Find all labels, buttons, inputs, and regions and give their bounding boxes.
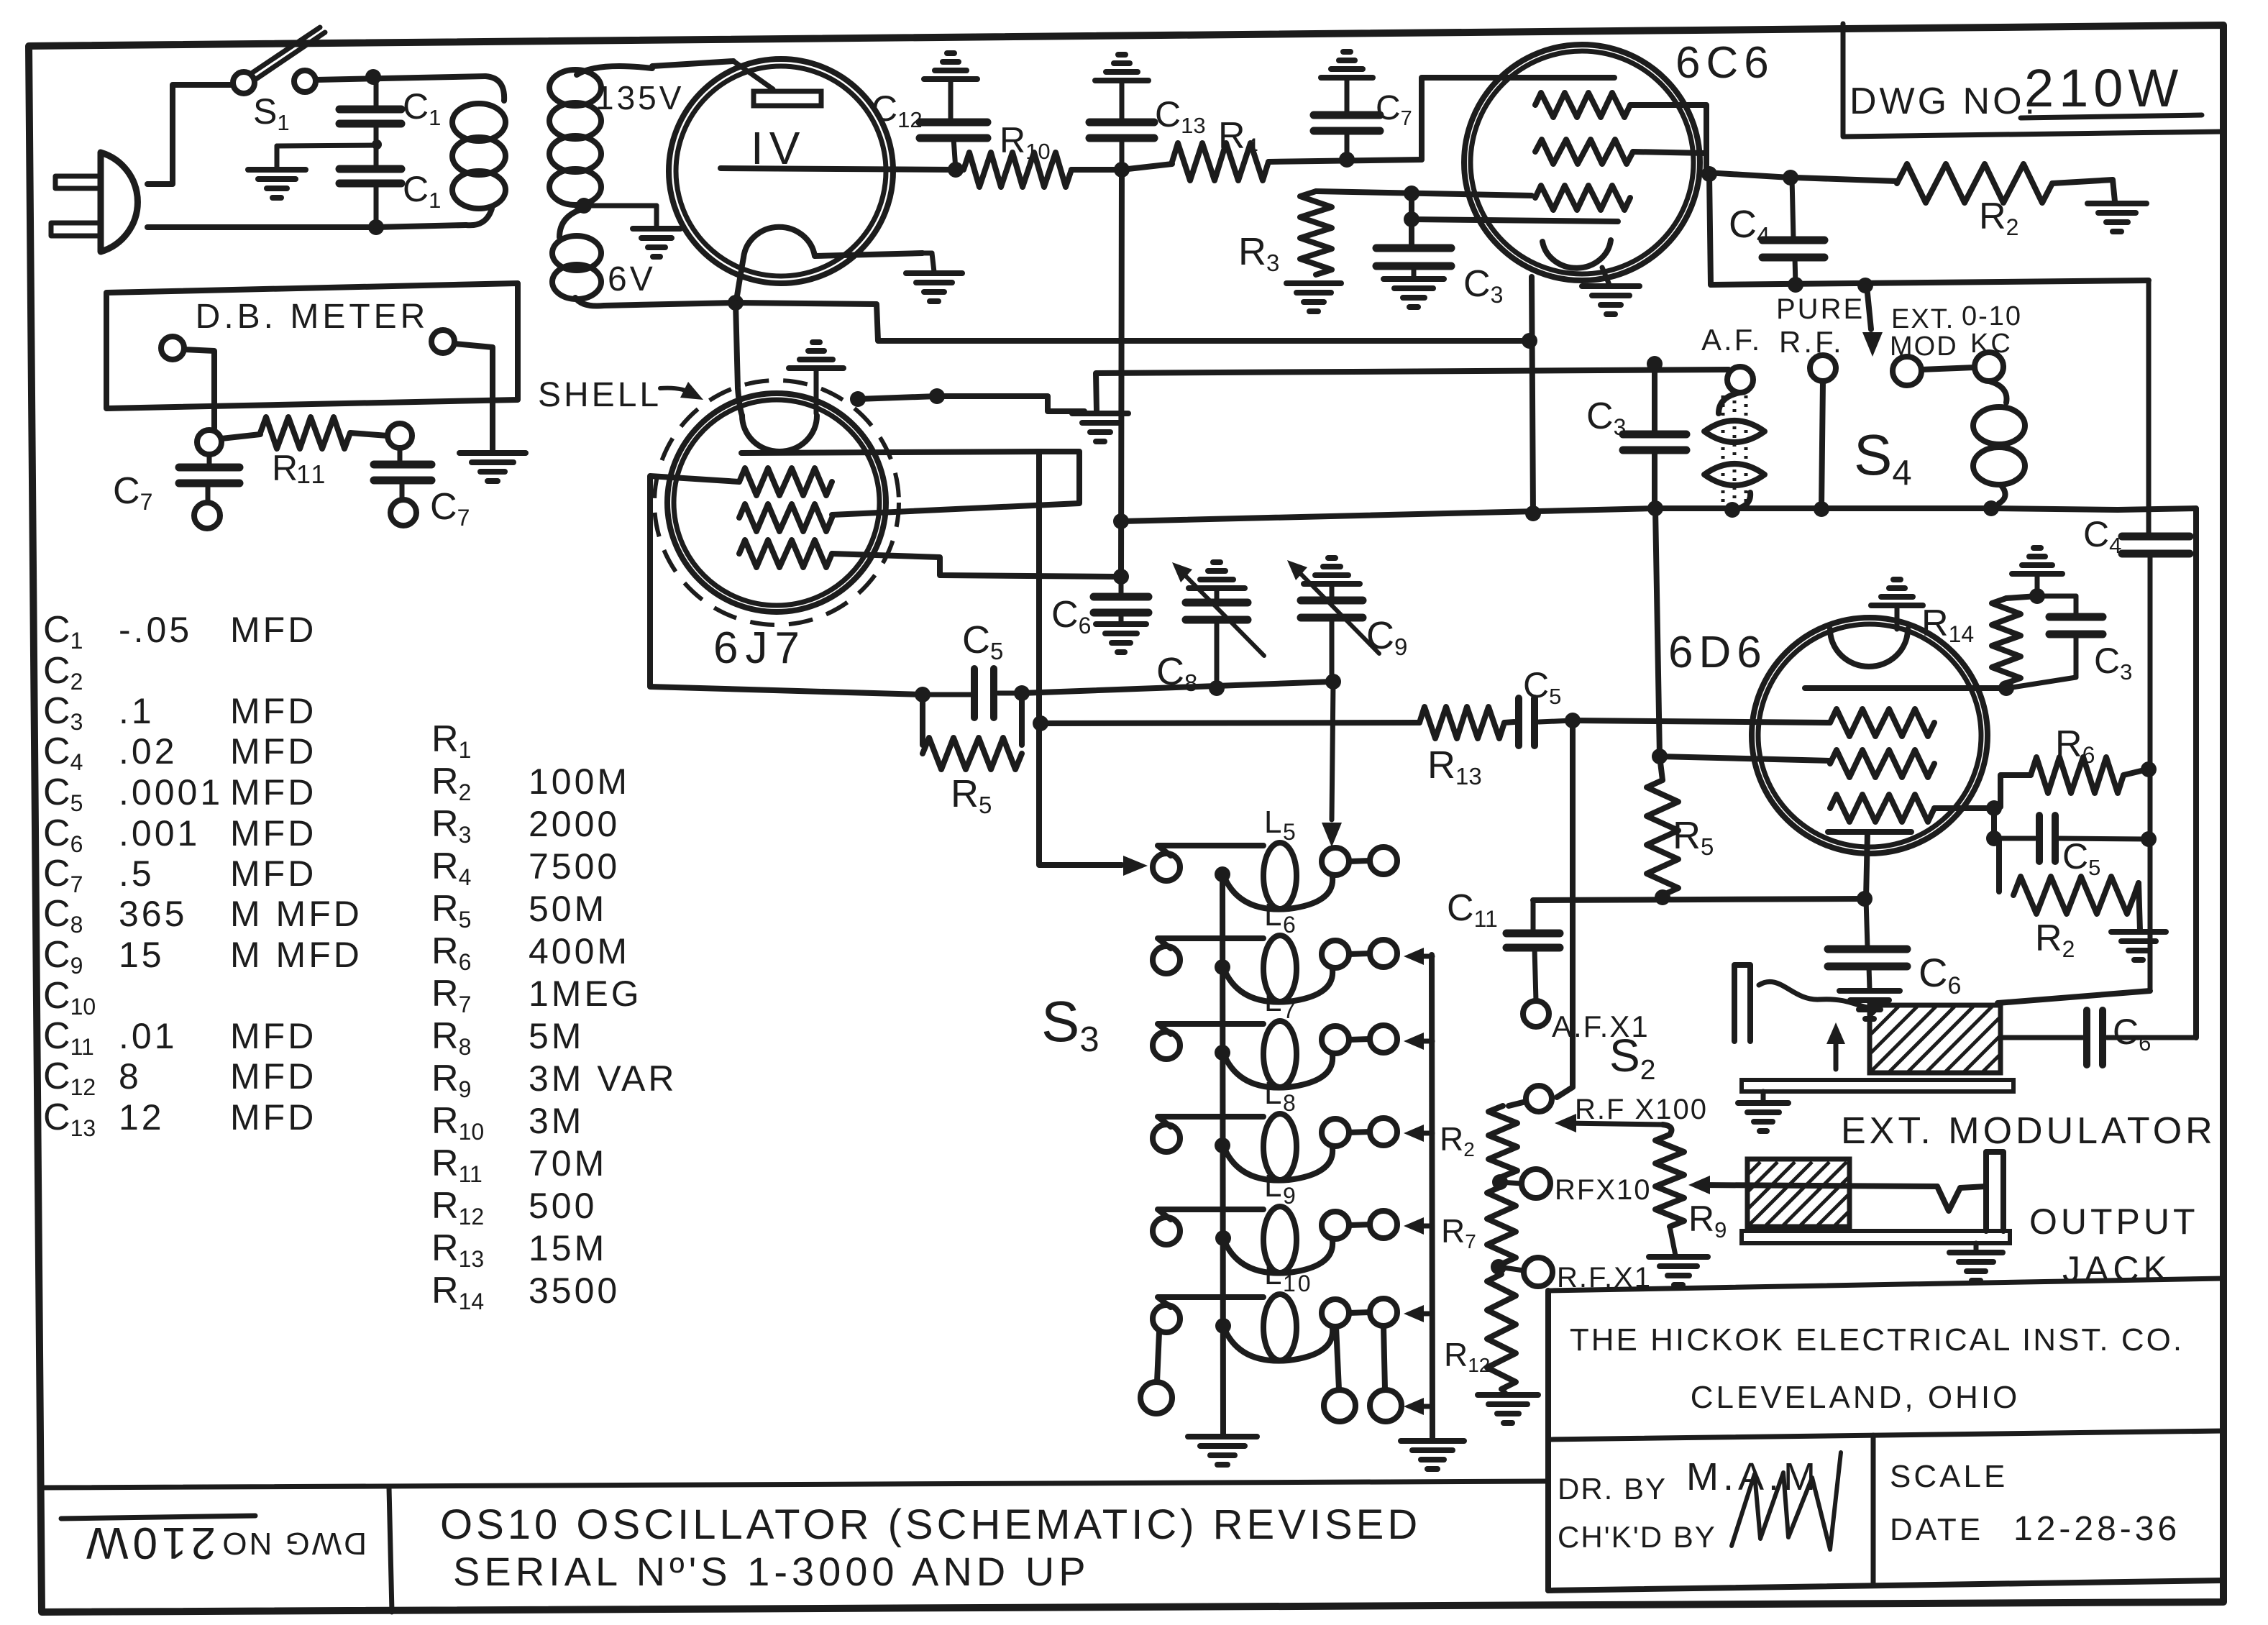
svg-text:L: L: [1264, 897, 1284, 933]
tube 1V grid line: [721, 168, 956, 170]
ground below R9: [1649, 1227, 1708, 1285]
wire 6D6 cathode row: [1533, 899, 1865, 900]
label EXT MOD: [1890, 304, 1958, 362]
label R5 grid: [951, 772, 992, 818]
junction shell 2: [929, 388, 945, 404]
ground tap of C1 pair: [248, 145, 377, 198]
svg-text:MFD: MFD: [230, 1016, 316, 1056]
junction C12: [948, 162, 964, 178]
coil S4 KC: [1973, 381, 2025, 508]
resistor R7 att: [1487, 1186, 1516, 1264]
svg-text:M MFD: M MFD: [230, 935, 362, 975]
svg-text:-.05: -.05: [119, 610, 192, 650]
label 6C6: [1675, 38, 1775, 88]
label C4: [1729, 203, 1770, 249]
svg-text:EXT. MODULATOR: EXT. MODULATOR: [1841, 1110, 2216, 1152]
svg-text:EXT.: EXT.: [1891, 304, 1954, 334]
svg-text:210W: 210W: [2024, 58, 2183, 118]
label C7 left: [113, 470, 152, 515]
wire PURE RF drop: [1821, 381, 1823, 509]
tube 6D6 grid 1: [1830, 709, 1934, 736]
chkd-by: [1558, 1520, 1716, 1554]
wire S1 to transformer: [316, 76, 485, 80]
junction RF x1: [1491, 1259, 1506, 1275]
label R14: [1921, 603, 1974, 647]
label EXT MODULATOR: [1841, 1110, 2216, 1152]
wire 6C6 grid2 stub: [1633, 152, 1705, 153]
label 6J7: [713, 623, 807, 673]
label S3: [1041, 989, 1099, 1059]
ground below R3: [1286, 283, 1341, 311]
label D.B. METER: [196, 298, 429, 336]
junction secondary CT: [576, 198, 592, 214]
drawing number M012 (rotated): [61, 1516, 367, 1567]
ground above C13: [1095, 55, 1148, 81]
wire 6C6 grid1 to C4: [1630, 105, 1791, 178]
svg-text:CLEVELAND, OHIO: CLEVELAND, OHIO: [1691, 1380, 2021, 1415]
svg-text:DWG NO: DWG NO: [220, 1526, 367, 1561]
capacitor C6 cathode: [1828, 899, 1907, 989]
junction C1 mid: [372, 124, 382, 166]
svg-text:500: 500: [529, 1186, 597, 1226]
label R2 att: [1440, 1120, 1475, 1161]
capacitor C4 right: [2122, 280, 2190, 991]
capacitor C5 fb: [1994, 815, 2147, 861]
svg-text:0-10: 0-10: [1962, 301, 2022, 331]
svg-text:9: 9: [1283, 1183, 1298, 1209]
resistor R9: [1655, 1135, 1684, 1227]
terminal RF X10: [1500, 1169, 1550, 1198]
svg-text:D.B. METER: D.B. METER: [196, 298, 429, 336]
arrow range L6: [1404, 948, 1432, 965]
junction L6 rotor: [1215, 959, 1230, 975]
label C4 right: [2083, 514, 2121, 558]
label PURE RF: [1776, 293, 1865, 359]
svg-text:.5: .5: [119, 853, 155, 894]
resistor R12 att: [1487, 1274, 1516, 1389]
resistor R2 fb: [1999, 838, 2140, 930]
svg-text:MFD: MFD: [230, 610, 316, 650]
ground 6J7 shell top: [789, 342, 843, 368]
ground 6D6 top: [1871, 580, 1923, 629]
coil L5: [1153, 805, 1397, 910]
svg-text:.1: .1: [119, 691, 155, 731]
label 6D6: [1668, 628, 1768, 677]
svg-text:L: L: [1264, 805, 1284, 840]
svg-text:MFD: MFD: [230, 853, 316, 894]
junction R6 right: [2141, 761, 2157, 777]
svg-text:SERIAL Nº'S 1-3000 AND UP: SERIAL Nº'S 1-3000 AND UP: [453, 1549, 1090, 1594]
label R4: [1218, 115, 1258, 160]
terminal L10 aux tap2: [1370, 1326, 1402, 1422]
tube 6J7 plate line: [741, 452, 1039, 453]
svg-text:MFD: MFD: [230, 731, 316, 772]
title block box: [1548, 1278, 2223, 1590]
capacitor C3 plate: [2008, 596, 2103, 688]
wire EXT MOD to KC: [1921, 367, 1975, 370]
capacitor C9: [1293, 566, 1379, 682]
label C11: [1447, 887, 1498, 932]
label AF X1: [1552, 1010, 1650, 1043]
wire grid3 to R6: [1994, 775, 2031, 808]
tube 6C6 cathode dome: [1542, 240, 1611, 268]
ground R2 top: [2088, 203, 2146, 232]
ground below C6: [1096, 624, 1146, 652]
tube 6D6 cathode bar: [1828, 832, 1911, 899]
resistor R14: [1992, 598, 2021, 683]
svg-text:SCALE: SCALE: [1890, 1459, 2008, 1494]
label C3 screen: [1463, 263, 1503, 308]
transformer 6V winding: [552, 209, 604, 306]
wire 135V to 1V plate: [652, 61, 733, 66]
junction R13 takeoff: [1033, 715, 1048, 731]
dr-by: [1558, 1455, 1820, 1506]
junction cathode C6: [1857, 891, 1873, 907]
capacitor C7 bypass: [1314, 79, 1380, 160]
label R6: [2055, 723, 2095, 768]
label C6 cathode: [1919, 950, 1961, 999]
wire step down to AF line: [1709, 174, 1711, 285]
svg-text:DWG NO.: DWG NO.: [1849, 81, 2038, 122]
resistor R3: [1300, 191, 1332, 275]
tube 6J7 cathode dome: [742, 370, 817, 452]
tube 6J7 shell (dashed): [654, 380, 899, 625]
junction 6D6 grid line: [1565, 713, 1581, 728]
label 1V: [751, 122, 805, 174]
svg-text:12: 12: [119, 1097, 165, 1137]
svg-text:7: 7: [1283, 997, 1298, 1023]
tube 6D6 grid 2: [1830, 750, 1934, 777]
svg-text:MFD: MFD: [230, 1056, 316, 1097]
svg-text:6: 6: [1283, 912, 1298, 938]
modulator arrow: [1826, 1022, 1845, 1069]
junction grid1 step: [1701, 166, 1717, 182]
coil L6: [1153, 897, 1397, 1002]
junction PURE RF bus: [1814, 501, 1829, 517]
tube 6D6 envelope: [1752, 618, 1988, 853]
coil AF transformer: [1704, 392, 1765, 510]
ground below C3: [1384, 279, 1444, 307]
transformer secondary 135V: [549, 66, 652, 208]
wire R3 to grid: [1316, 191, 1532, 196]
capacitor C5 coupling: [1519, 698, 1573, 746]
junction L7 rotor: [1215, 1045, 1230, 1061]
label 135V: [595, 79, 684, 116]
junction C9: [1325, 674, 1341, 690]
label C5 fb: [2062, 836, 2100, 880]
tube 6D6 plate line: [1805, 685, 2003, 691]
wire meter left to R11: [184, 349, 214, 429]
company city: [1691, 1380, 2021, 1415]
junction C13: [1114, 162, 1130, 178]
title block divider v: [1871, 1435, 1876, 1585]
ground above C12: [924, 53, 977, 79]
dwg-no text: [1849, 81, 2038, 122]
junction R14 top: [2029, 588, 2045, 604]
label S4: [1854, 423, 1912, 493]
junction C5-3 left: [1986, 830, 2002, 846]
terminal PURE RF: [1810, 355, 1836, 381]
arrow range L9: [1404, 1217, 1432, 1235]
modulator wire: [1759, 981, 1870, 1008]
label C6 screen: [1051, 594, 1091, 638]
label C9: [1366, 614, 1407, 660]
label S2: [1609, 1030, 1655, 1086]
svg-text:DR. BY: DR. BY: [1558, 1472, 1667, 1506]
junction C5-3 right: [2141, 831, 2157, 847]
junction L10 rotor: [1215, 1318, 1231, 1334]
title block divider h: [1548, 1431, 2223, 1439]
terminal AF: [1727, 367, 1753, 393]
arrow range L10: [1404, 1305, 1432, 1322]
resistor R5 grid: [923, 693, 1022, 769]
ground 6C6 cathode: [1582, 267, 1640, 314]
svg-text:L: L: [1264, 983, 1284, 1018]
ground below R12: [1478, 1389, 1538, 1423]
terminal L10 aux left: [1140, 1332, 1172, 1414]
svg-text:SHELL: SHELL: [538, 376, 662, 414]
svg-text:12-28-36: 12-28-36: [2013, 1510, 2180, 1548]
svg-text:DATE: DATE: [1890, 1512, 1983, 1547]
junction AF coil bus: [1724, 502, 1740, 518]
title line 2: [453, 1549, 1090, 1594]
label R7 att: [1441, 1212, 1476, 1253]
svg-text:7500: 7500: [529, 846, 620, 887]
tube 6J7 envelope: [667, 393, 886, 612]
wire grid3 down: [1991, 808, 1997, 838]
label SHELL: [538, 376, 662, 414]
wire 6J7 grid1 left: [650, 476, 923, 695]
meter terminal right: [431, 330, 454, 353]
arrow C9 to L5: [1322, 682, 1342, 847]
junction shell: [850, 391, 866, 407]
label JACK: [2062, 1249, 2172, 1289]
capacitor C7 left: [179, 454, 239, 502]
junction R5 bottom: [1655, 889, 1670, 905]
wire grid bus to C8 C9: [1022, 682, 1332, 693]
terminal RF X1: [1499, 1258, 1553, 1286]
svg-text:15M: 15M: [529, 1228, 607, 1268]
wire plug to S1: [147, 85, 233, 184]
tube 6C6 grid 2: [1535, 139, 1633, 164]
svg-text:365: 365: [119, 894, 187, 934]
label 0-10 KC: [1962, 301, 2022, 359]
junction heater: [728, 295, 744, 311]
tube 6C6 envelope: [1464, 45, 1700, 280]
capacitor C6 coupling: [2000, 1010, 2196, 1065]
output jack hatched block: [1678, 1159, 1916, 1227]
output jack wire: [1688, 1176, 1986, 1211]
S3 range bus: [1432, 955, 1432, 1439]
svg-text:.01: .01: [119, 1016, 178, 1056]
svg-text:400M: 400M: [529, 931, 630, 971]
junction L8 rotor: [1215, 1137, 1230, 1153]
wire heater to 6J7: [736, 303, 742, 416]
wire 6D6 grid3 out: [1934, 805, 1989, 811]
meter terminal left: [161, 337, 184, 360]
terminal L10 aux tap1: [1324, 1327, 1355, 1422]
ground R2 fb: [2111, 932, 2166, 960]
arrow C9: [1287, 560, 1307, 580]
date: [1890, 1510, 2180, 1548]
svg-text:MFD: MFD: [230, 813, 316, 853]
label S1: [253, 91, 290, 135]
svg-text:8: 8: [1283, 1090, 1298, 1116]
wire plug to C1 bottom: [147, 224, 376, 230]
svg-text:MFD: MFD: [230, 691, 316, 731]
wire S3 feed: [1039, 452, 1122, 865]
wire 6C6 cathode drop: [1532, 277, 1533, 515]
resistor value list: [431, 718, 677, 1314]
junction L5 rotor: [1215, 866, 1230, 882]
modulator hatched block: [1795, 1005, 2085, 1073]
D.B. meter box: [106, 283, 518, 408]
label RF X1: [1557, 1262, 1652, 1294]
svg-text:8: 8: [119, 1056, 142, 1097]
svg-text:5: 5: [1283, 819, 1298, 845]
svg-text:MFD: MFD: [230, 772, 316, 812]
svg-text:CH'K'D BY: CH'K'D BY: [1558, 1520, 1716, 1554]
svg-text:210W: 210W: [82, 1518, 216, 1567]
arrow R9 wiper: [1555, 1114, 1671, 1135]
label R5 cathode: [1673, 814, 1714, 860]
junction heater end: [1522, 333, 1537, 349]
svg-text:11: 11: [296, 459, 327, 489]
tube 6D6 grid 3: [1830, 795, 1934, 822]
ground above R14: [2012, 548, 2062, 596]
wire C13 drop: [1121, 170, 1122, 577]
label C6 coupling: [2113, 1012, 2151, 1056]
arrow C8: [1172, 562, 1192, 582]
ground C6 cathode: [1839, 991, 1900, 1019]
svg-text:10: 10: [1283, 1271, 1313, 1296]
label R12 att: [1444, 1336, 1490, 1376]
svg-text:6J7: 6J7: [713, 623, 807, 673]
capacitor C8: [1178, 568, 1264, 688]
junction R3 wire: [1404, 186, 1419, 201]
svg-text:MFD: MFD: [230, 1097, 316, 1137]
wire C1 bottom to primary: [376, 225, 466, 227]
resistor R2 att: [1489, 1102, 1526, 1176]
junction AF cap bus: [1647, 500, 1663, 516]
resistor R5 cathode: [1647, 756, 1678, 895]
svg-text:THE HICKOK ELECTRICAL INST. CO: THE HICKOK ELECTRICAL INST. CO.: [1570, 1322, 2184, 1358]
junction KC coil bus: [1983, 500, 1999, 516]
wire screen feed: [1655, 508, 1830, 761]
scale label: [1890, 1459, 2008, 1494]
svg-text:100M: 100M: [529, 761, 630, 802]
label C1 upper: [403, 86, 441, 130]
wire meter right to ground: [454, 344, 493, 450]
ground S3 range bus: [1401, 1441, 1464, 1469]
svg-text:R.F.: R.F.: [1779, 325, 1844, 359]
junction C3 top: [1404, 211, 1419, 227]
junction C3 AF: [1647, 356, 1663, 372]
svg-text:70M: 70M: [529, 1143, 607, 1184]
checker signature: [1732, 1452, 1841, 1550]
arrow S4 wiper: [1862, 286, 1883, 357]
svg-text:.0001: .0001: [119, 772, 223, 812]
label C8: [1156, 650, 1197, 696]
svg-text:RFX10: RFX10: [1555, 1174, 1652, 1206]
capacitor C3 screen: [1376, 248, 1451, 277]
secondary CT ground: [584, 206, 680, 257]
wire AF output line: [1711, 280, 2149, 285]
ground meter right: [459, 453, 526, 481]
label C1 lower: [403, 169, 441, 213]
svg-text:6D6: 6D6: [1668, 628, 1768, 677]
svg-text:6C6: 6C6: [1675, 38, 1775, 88]
terminal EXT MOD: [1893, 357, 1921, 385]
ground above C8: [1189, 562, 1245, 588]
ground modulator: [1738, 1091, 1788, 1131]
terminal R11 left: [197, 430, 221, 454]
terminal RF X100: [1526, 1086, 1552, 1112]
tube 6J7 grid 3: [739, 540, 832, 567]
label 6V: [608, 260, 656, 298]
tube 6D6 cathode dome: [1830, 629, 1908, 667]
wire to 6D6 grid1: [1573, 720, 1830, 723]
svg-text:6V: 6V: [608, 260, 656, 298]
tube 1V plate: [733, 61, 821, 106]
svg-text:R.F.X1: R.F.X1: [1557, 1262, 1652, 1294]
arrow range aux: [1404, 1398, 1432, 1415]
arrow SHELL: [660, 382, 703, 400]
wire shell ground run: [858, 396, 1084, 411]
junction R5-2 top: [1652, 749, 1668, 764]
wire heater run: [736, 303, 1529, 341]
label C3 AF: [1586, 395, 1626, 440]
label C7 bypass: [1376, 89, 1412, 130]
svg-text:.02: .02: [119, 731, 178, 772]
ground above C7-3: [1321, 52, 1373, 78]
svg-text:R.F X100: R.F X100: [1575, 1094, 1708, 1125]
svg-text:JACK: JACK: [2062, 1249, 2172, 1289]
modulator base: [1742, 1080, 2013, 1091]
capacitor C7 right: [374, 448, 431, 499]
svg-text:L: L: [1264, 1256, 1284, 1291]
ground output jack: [1949, 1243, 2003, 1281]
coil L8: [1153, 1076, 1397, 1181]
ground 1V cathode: [906, 253, 962, 301]
label OUTPUT: [2029, 1201, 2199, 1242]
capacitor C1 upper: [339, 77, 401, 124]
svg-text:2000: 2000: [529, 804, 620, 844]
tube 6C6 cathode line: [1412, 219, 1618, 221]
tube 1V envelope: [669, 59, 893, 283]
coil L10: [1153, 1256, 1397, 1361]
terminal KC: [1975, 352, 2003, 381]
wire modulator feed: [1998, 991, 2150, 1003]
title line 1: [440, 1501, 1421, 1548]
capacitor C5 grid: [923, 669, 1022, 718]
tube 1V cathode: [736, 227, 923, 301]
label C5 coupling: [1523, 665, 1561, 709]
svg-text:135V: 135V: [595, 79, 684, 116]
svg-text:L: L: [1264, 1168, 1284, 1204]
label C13: [1155, 94, 1206, 138]
label C12: [872, 88, 923, 132]
junction top of C1: [365, 69, 381, 85]
capacitor value list: [43, 609, 362, 1141]
capacitor C13: [1089, 83, 1154, 170]
svg-text:3M: 3M: [529, 1101, 584, 1141]
dwg-no box: [1843, 24, 2223, 137]
S3 rotor bus: [1222, 870, 1223, 1435]
junction C7 bypass: [1339, 152, 1355, 168]
svg-text:3500: 3500: [529, 1271, 620, 1311]
svg-text:3M VAR: 3M VAR: [529, 1058, 677, 1099]
